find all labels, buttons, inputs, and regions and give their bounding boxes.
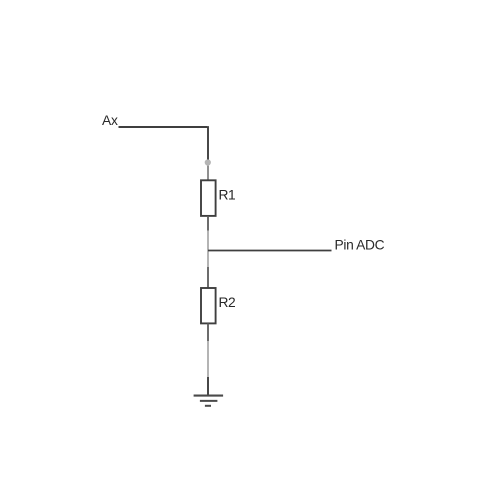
wire: light segment to node <box>207 231 209 268</box>
ground stem <box>207 377 209 395</box>
svg-text:Pin ADC: Pin ADC <box>335 238 385 253</box>
ground bar 2 <box>200 400 218 402</box>
wire: R1 pin 1 lead <box>207 166 209 180</box>
wire: R1 pin 2 lead <box>207 216 209 231</box>
wire: R2 pin 2 lead <box>207 323 209 341</box>
ground bar 1 <box>194 395 224 397</box>
wire: node to Pin ADC <box>208 250 332 252</box>
wire: light segment to ground <box>207 341 209 377</box>
svg-text:R1: R1 <box>219 188 236 203</box>
ground bar 3 <box>205 405 211 407</box>
junction dot <box>205 159 211 165</box>
wire: R2 pin 1 lead <box>207 267 209 288</box>
resistor R1 <box>201 180 216 216</box>
svg-text:R2: R2 <box>219 295 236 310</box>
wire from Ax label to junction (net Ax) <box>119 126 209 162</box>
svg-text:Ax: Ax <box>102 113 118 128</box>
resistor R2 <box>201 288 216 323</box>
